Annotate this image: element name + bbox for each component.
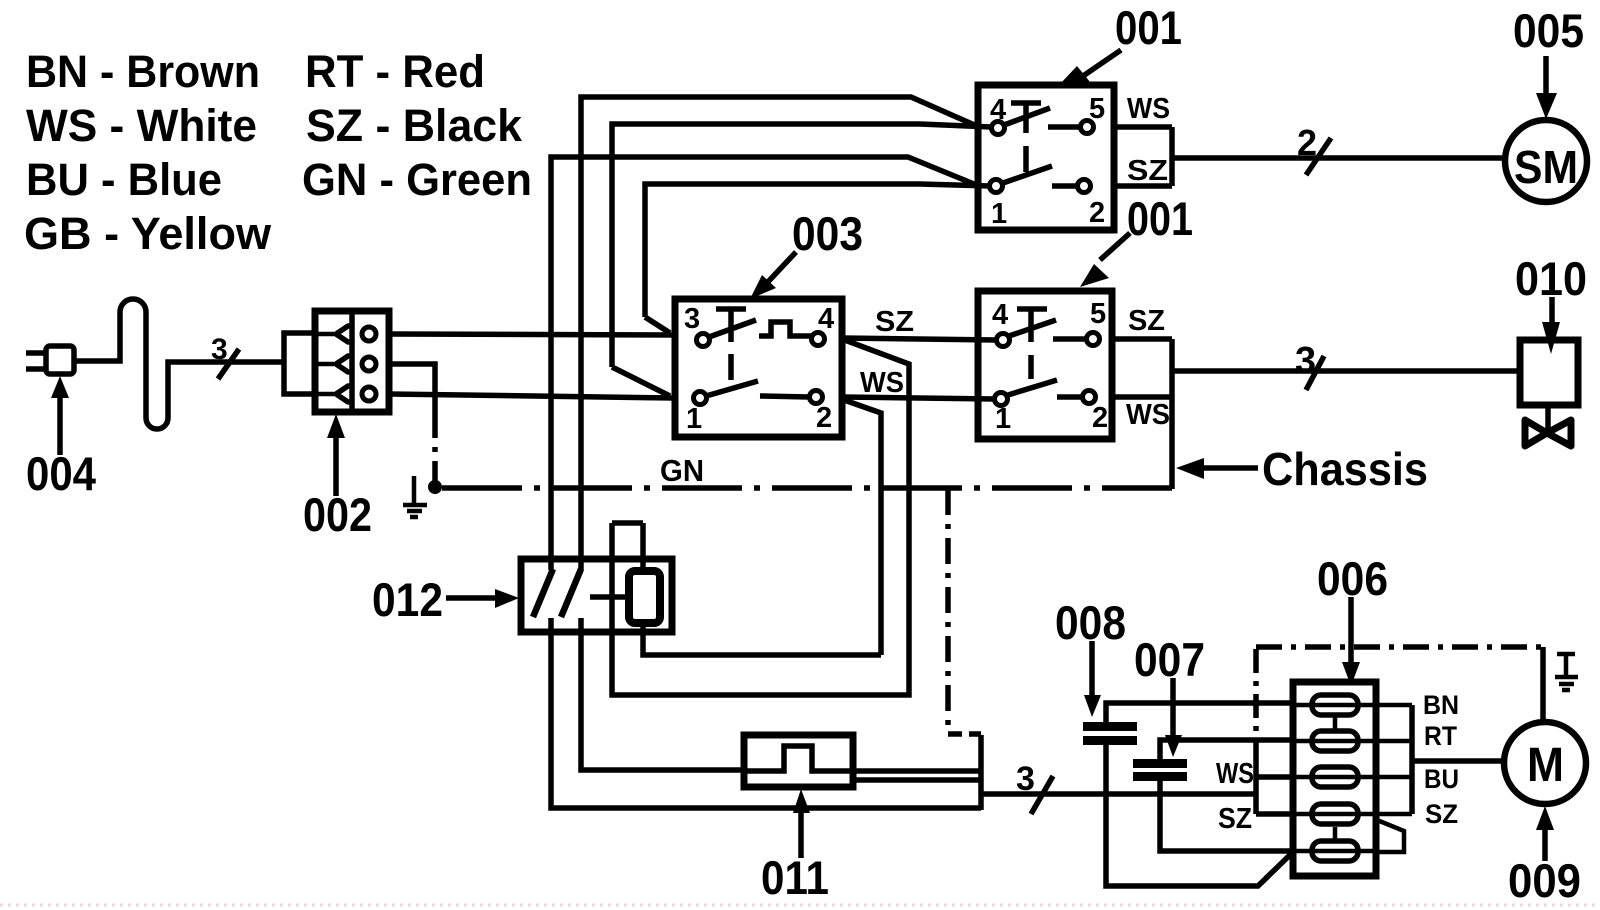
switch 003 pin3 circle bbox=[697, 334, 710, 347]
label 001 (middle) bbox=[1127, 192, 1193, 245]
label 006 bbox=[1317, 552, 1388, 605]
switch 001b actuator T bbox=[1017, 309, 1047, 342]
wire bracket to motor M bbox=[1412, 758, 1504, 764]
wire W3 lower run to cable bundle bbox=[551, 618, 981, 808]
arrow to 010 bbox=[1549, 297, 1555, 328]
net label SZ at 001a bbox=[1127, 155, 1168, 187]
svg-text:WS: WS bbox=[1127, 93, 1170, 125]
wire WS: 003 pin2 to 001b pin1 bbox=[842, 397, 995, 399]
switch 001b upper lever bbox=[1009, 320, 1056, 336]
svg-text:1: 1 bbox=[991, 198, 1007, 230]
label 005 bbox=[1513, 4, 1584, 57]
terminal strip 006 body bbox=[1293, 682, 1376, 876]
label 007 bbox=[1134, 633, 1205, 686]
arrow to 008 bbox=[1089, 641, 1095, 697]
switch 003 actuator T bbox=[716, 309, 746, 342]
label Chassis bbox=[1262, 443, 1428, 495]
wire W2: riser joining 003 pin1 and 001a pin4 bbox=[612, 124, 991, 396]
chassis dash-dot drop to cable bundle bbox=[945, 489, 951, 733]
switch 001b pin5 contact line bbox=[1053, 336, 1086, 342]
switch 003 pin2 contact line bbox=[760, 396, 809, 397]
switch 003 pin numbers bbox=[684, 303, 834, 435]
switch 003 pin1 circle bbox=[694, 392, 707, 405]
chassis drop to motor bbox=[1540, 647, 1546, 723]
svg-text:SZ: SZ bbox=[1127, 155, 1168, 187]
wire 001b pin5 out (SZ) bbox=[1112, 336, 1172, 342]
terminal strip 006 inter-row ticks bbox=[1333, 717, 1338, 839]
chassis dash-dot elbow bbox=[948, 731, 981, 737]
relay 012 coil branch wires bbox=[643, 523, 881, 655]
switch 003 lower contact lever bbox=[706, 381, 758, 396]
switch 001b pin4 circle bbox=[997, 334, 1010, 347]
arrow to switch 003 bbox=[766, 252, 796, 284]
svg-text:3: 3 bbox=[684, 303, 700, 335]
svg-text:GN: GN bbox=[660, 453, 704, 488]
arrow to 001b bbox=[1100, 233, 1130, 260]
relay 012 body bbox=[521, 559, 672, 632]
svg-text:M: M bbox=[1527, 739, 1564, 792]
switch 001a pin numbers bbox=[990, 93, 1105, 230]
wire 002 row1 to switch 003 pin3 bbox=[389, 334, 677, 335]
valve 010 bowtie bbox=[1525, 420, 1571, 446]
junction dot chassis bbox=[428, 480, 442, 494]
svg-text:SZ: SZ bbox=[1218, 803, 1252, 835]
switch 001b link (dashed) bbox=[1028, 355, 1034, 379]
svg-text:1: 1 bbox=[686, 403, 702, 435]
svg-text:008: 008 bbox=[1055, 596, 1126, 649]
svg-text:BN - Brown: BN - Brown bbox=[26, 46, 260, 97]
terminal block 002 body bbox=[315, 311, 389, 412]
net label WS bbox=[860, 367, 904, 399]
label 001 (top) bbox=[1115, 1, 1182, 54]
label 012 bbox=[372, 573, 443, 626]
net labels BN RT BU SZ bbox=[1423, 690, 1459, 829]
capacitor 008 bottom plate bbox=[1083, 736, 1137, 745]
relay 012 contact slash A bbox=[533, 569, 553, 617]
relay 012 link to coil bbox=[590, 594, 628, 600]
switch 001b pin5 circle bbox=[1087, 333, 1100, 346]
arrow to 012 bbox=[446, 595, 500, 601]
switch 001b lower lever bbox=[1008, 380, 1057, 395]
dash-dot earth drop to chassis bbox=[432, 412, 438, 487]
svg-text:009: 009 bbox=[1508, 854, 1581, 907]
wires 006 rows to bracket bbox=[1376, 705, 1412, 814]
label 002 bbox=[303, 488, 372, 541]
cable to motor compartment bbox=[981, 791, 1256, 797]
switch 001a upper lever bbox=[1004, 108, 1050, 125]
svg-text:2: 2 bbox=[1092, 402, 1108, 434]
svg-text:012: 012 bbox=[372, 573, 443, 626]
arrow to 007 bbox=[1170, 678, 1176, 736]
conductor-count 2 on wire to SM bbox=[1297, 122, 1317, 163]
wire 008 bottom to 006 row5 bbox=[1106, 745, 1292, 886]
label 010 bbox=[1515, 252, 1587, 305]
svg-text:011: 011 bbox=[761, 851, 829, 904]
scan artifact dotted line at bottom bbox=[0, 904, 1600, 907]
switch 001a (top) body bbox=[978, 85, 1114, 230]
arrow to terminal block 002 bbox=[333, 434, 339, 496]
svg-text:BU: BU bbox=[1424, 764, 1459, 794]
relay 012 coil bbox=[629, 571, 660, 623]
wire W1: vertical riser to switch 001a pin4 bbox=[581, 97, 979, 570]
svg-text:010: 010 bbox=[1515, 252, 1587, 305]
svg-text:RT - Red: RT - Red bbox=[305, 46, 485, 97]
svg-text:4: 4 bbox=[992, 299, 1008, 331]
svg-text:007: 007 bbox=[1134, 633, 1205, 686]
arrow to 006 bbox=[1348, 597, 1354, 664]
relay 012 contact slash B bbox=[561, 569, 581, 617]
svg-text:4: 4 bbox=[818, 303, 834, 335]
switch 003 pin2 circle bbox=[810, 391, 823, 404]
net label SZ at 006 bbox=[1218, 803, 1252, 835]
label 008 bbox=[1055, 596, 1126, 649]
svg-text:SZ: SZ bbox=[1425, 799, 1458, 829]
bundle bracket at 001b and cable to 010 bbox=[1172, 339, 1520, 489]
net label SZ bbox=[875, 306, 914, 338]
bundle bracket at 001a bbox=[1172, 127, 1506, 186]
switch 001b pin2 circle bbox=[1083, 391, 1096, 404]
svg-text:SZ: SZ bbox=[1128, 305, 1165, 337]
svg-text:Chassis: Chassis bbox=[1262, 443, 1428, 495]
slash on motor cable bbox=[1031, 776, 1053, 814]
svg-text:001: 001 bbox=[1115, 1, 1182, 54]
arrow to 005 bbox=[1543, 56, 1549, 94]
wire 012 to 011 input bbox=[581, 618, 744, 770]
svg-text:5: 5 bbox=[1089, 93, 1105, 125]
switch 001a pin4 circle bbox=[992, 122, 1005, 135]
switch 001b pin2 contact line bbox=[1057, 394, 1082, 400]
svg-text:WS: WS bbox=[1216, 758, 1254, 790]
wire 002 row3 to switch 003 pin1 bbox=[389, 394, 675, 398]
ground symbol near motor bbox=[1555, 654, 1578, 690]
chassis dash-dot line bbox=[442, 485, 1172, 491]
svg-text:3: 3 bbox=[211, 333, 228, 366]
capacitor 008 top plate bbox=[1083, 722, 1137, 731]
terminal block 002 divider bbox=[349, 311, 355, 412]
switch 003 pulse symbol to pin4 bbox=[759, 322, 811, 336]
svg-text:WS: WS bbox=[860, 367, 904, 399]
label 003 bbox=[792, 207, 863, 260]
switch 003 link (dashed) bbox=[728, 354, 734, 380]
svg-text:5: 5 bbox=[1090, 298, 1106, 330]
pressure switch 011 body bbox=[744, 735, 853, 787]
svg-text:2: 2 bbox=[1089, 197, 1105, 229]
arrow to 011 bbox=[798, 810, 804, 858]
switch 001a pin2 circle bbox=[1078, 180, 1091, 193]
switch 001b (bottom) body bbox=[978, 291, 1112, 439]
switch 001a pin1 circle bbox=[990, 180, 1003, 193]
slash on wire to SM bbox=[1306, 138, 1331, 175]
net label WS at 001a bbox=[1127, 93, 1170, 125]
svg-text:GN - Green: GN - Green bbox=[302, 154, 532, 205]
net label WS at 001b bbox=[1126, 399, 1170, 431]
wire 007 top to 006 row2 bbox=[1160, 740, 1293, 759]
terminal strip 006 fuse elements bbox=[1312, 695, 1358, 861]
terminal block 002 outer bracket bbox=[284, 333, 315, 394]
legend: wire colour codes bbox=[24, 46, 532, 259]
bracket at 006 right bbox=[1409, 705, 1415, 814]
svg-text:BN: BN bbox=[1423, 690, 1459, 720]
conductor-count 3 on motor cable bbox=[1016, 760, 1035, 798]
slash on wire to 010 bbox=[1306, 356, 1324, 390]
slash on mains cord bbox=[218, 349, 239, 379]
wire 001b pin2 out (WS) bbox=[1112, 394, 1174, 400]
wire 007 bottom to 006 row5 bbox=[1160, 781, 1293, 851]
wire W3: vertical riser to switch 001a pin1 bbox=[551, 157, 974, 570]
ground symbol near 002 bbox=[403, 476, 427, 517]
switch 001b pin1 circle bbox=[995, 393, 1008, 406]
wire WS to 006 row3 bbox=[1256, 774, 1293, 780]
svg-text:4: 4 bbox=[990, 94, 1006, 126]
pressure switch 011 pulse contact bbox=[744, 746, 853, 771]
label 009 bbox=[1508, 854, 1581, 907]
chassis dash-dot riser bbox=[1253, 649, 1259, 750]
switch 001a link (dashed) bbox=[1023, 146, 1029, 172]
wire from 003 pin2 down to 011 output net bbox=[844, 400, 881, 655]
006 row5 return hook bbox=[1377, 820, 1404, 852]
wire W4: riser joining 003 pin3 and 001a pin1 bbox=[645, 184, 990, 333]
svg-text:1: 1 bbox=[995, 403, 1011, 435]
wire 001a pin2 out (SZ) bbox=[1114, 183, 1172, 189]
switch 003 body bbox=[675, 299, 842, 437]
net label SZ at 001b bbox=[1128, 305, 1165, 337]
wire SZ to 006 row4 bbox=[1256, 811, 1293, 817]
wire 001a pin5 out (WS) bbox=[1114, 124, 1172, 130]
wire 011 output bbox=[853, 768, 981, 774]
svg-text:001: 001 bbox=[1127, 192, 1193, 245]
svg-text:2: 2 bbox=[1297, 122, 1317, 163]
svg-text:SZ: SZ bbox=[875, 306, 914, 338]
arrow to 001a bbox=[1083, 50, 1121, 76]
plug 004 prongs bbox=[26, 353, 46, 369]
svg-text:SZ - Black: SZ - Black bbox=[306, 100, 523, 151]
terminal block 002 left-cell stubs bbox=[315, 334, 334, 394]
motor M 009 bbox=[1504, 722, 1586, 804]
svg-text:RT: RT bbox=[1424, 721, 1457, 751]
switch 001a lower lever bbox=[1003, 166, 1052, 183]
conductor-count 3 on wire to 010 bbox=[1295, 340, 1316, 382]
svg-text:3: 3 bbox=[1016, 760, 1035, 798]
svg-text:002: 002 bbox=[303, 488, 372, 541]
svg-text:005: 005 bbox=[1513, 4, 1584, 57]
switch 001a pin2 contact line bbox=[1052, 183, 1077, 189]
svg-text:003: 003 bbox=[792, 207, 863, 260]
switch 001a pin5 contact line bbox=[1048, 124, 1080, 130]
plug 004 body bbox=[46, 346, 74, 374]
switch 003 upper contact lever bbox=[709, 320, 756, 337]
capacitor 007 top plate bbox=[1133, 759, 1187, 768]
capacitor 007 bottom plate bbox=[1133, 772, 1187, 781]
terminal block 002 chevron contacts bbox=[336, 326, 348, 402]
switch 001a actuator T bbox=[1011, 103, 1041, 133]
wire 002 row2 (earth) to chassis junction bbox=[389, 364, 435, 412]
conductor-count mark 3 on mains cord bbox=[211, 333, 228, 366]
wire 011 output lower conductor bbox=[853, 777, 981, 783]
switch 001a pin5 circle bbox=[1081, 121, 1094, 134]
wire SZ: 003 pin4 to 001b pin4 bbox=[842, 338, 997, 340]
label 004 bbox=[26, 447, 96, 500]
chassis arrow bbox=[1203, 465, 1258, 471]
switch 001b pin numbers bbox=[992, 298, 1108, 435]
chassis dash-dot to motor ground bbox=[1256, 644, 1543, 650]
svg-text:WS - White: WS - White bbox=[26, 100, 257, 151]
svg-text:004: 004 bbox=[26, 447, 96, 500]
svg-text:BU - Blue: BU - Blue bbox=[26, 154, 222, 205]
cable bundle vertical bbox=[978, 735, 984, 810]
net label WS at 006 bbox=[1216, 758, 1254, 790]
motor SM 005 bbox=[1505, 120, 1587, 202]
svg-text:WS: WS bbox=[1126, 399, 1170, 431]
terminal block 002 terminal circles bbox=[362, 327, 376, 341]
svg-text:GB - Yellow: GB - Yellow bbox=[24, 208, 272, 259]
terminal strip 006 row lines bbox=[1293, 705, 1376, 851]
arrow to plug 004 bbox=[57, 393, 63, 455]
svg-text:SM: SM bbox=[1514, 141, 1578, 193]
net label GN bbox=[660, 453, 704, 488]
valve 010 body bbox=[1520, 340, 1578, 405]
label 011 bbox=[761, 851, 829, 904]
wire 008 top to 006 row1 bbox=[1106, 703, 1293, 722]
svg-text:006: 006 bbox=[1317, 552, 1388, 605]
cord loop from plug 004 bbox=[74, 299, 285, 429]
cable riser WS/SZ/chassis at 006 bbox=[1253, 750, 1259, 814]
svg-text:2: 2 bbox=[816, 402, 832, 434]
relay 012 top strap bbox=[612, 520, 643, 526]
switch 003 pin4 circle bbox=[812, 333, 825, 346]
valve 010 stem bbox=[1545, 405, 1551, 430]
arrow to 009 bbox=[1542, 824, 1548, 861]
wire from 003 pin4 down to 012 net bbox=[612, 339, 909, 695]
